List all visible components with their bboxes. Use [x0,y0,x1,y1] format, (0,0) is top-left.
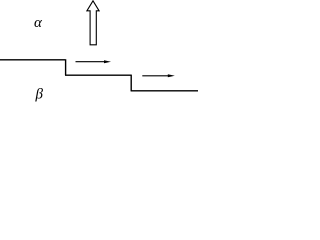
beta phase label [35,87,44,103]
upper terrace line [0,59,65,61]
svg-text:α: α [34,15,43,31]
lower terrace line [131,90,198,92]
adatom arrow 2 [142,74,175,77]
adatom arrow 1 [76,60,112,63]
middle terrace line [65,74,131,76]
alpha phase label [34,15,43,31]
growth flux hollow up-arrow [87,1,99,45]
svg-text:β: β [35,87,44,103]
step edge 1 [65,59,67,75]
step edge 2 [130,75,132,91]
